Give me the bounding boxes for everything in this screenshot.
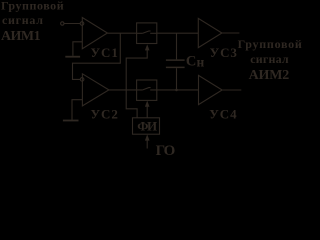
wire: FI output to key2 control xyxy=(146,106,148,117)
svg-text:н: н xyxy=(197,54,205,69)
wire: US2 output to key2 xyxy=(109,89,137,91)
capacitor Cn bottom plate xyxy=(166,66,185,68)
capacitor Cn top plate xyxy=(166,59,185,61)
op-amp US2 (triangle) xyxy=(82,74,109,106)
svg-text:ГО: ГО xyxy=(156,143,175,158)
key Kl2 switch blade xyxy=(142,88,150,90)
key Kl1 (switch box) xyxy=(137,23,157,44)
key Kl1 switch contact wires xyxy=(137,32,157,34)
junction dot: Cn to key2 output wire xyxy=(175,89,178,92)
svg-text:сигнал: сигнал xyxy=(250,52,289,66)
arrowhead: control into key1 xyxy=(145,44,150,50)
node: output label "Групповой сигнал АИМ2" xyxy=(238,37,303,83)
svg-text:УС1: УС1 xyxy=(91,45,119,60)
svg-text:сигнал: сигнал xyxy=(2,13,44,27)
svg-text:УС2: УС2 xyxy=(91,106,119,121)
svg-text:ФИ: ФИ xyxy=(137,118,157,133)
node: input label "Групповой сигнал АИМ1" xyxy=(1,0,64,44)
input terminal (open circle) xyxy=(61,22,64,25)
value label Сн xyxy=(186,53,205,69)
svg-text:Групповой: Групповой xyxy=(238,37,303,51)
node: US1 input junction circle xyxy=(80,22,84,26)
wire: US2 lower input to ground xyxy=(72,100,82,120)
ground (bar) under US2 xyxy=(63,120,79,122)
capacitor Cn top lead xyxy=(176,33,178,59)
wire: key2 output to US4 input xyxy=(157,89,199,91)
wire: US1 lower input to ground xyxy=(73,42,82,56)
svg-text:УС4: УС4 xyxy=(209,106,237,121)
key Kl2 switch contact wires xyxy=(137,89,157,91)
svg-text:С: С xyxy=(186,53,196,69)
op-amp US1 (triangle) xyxy=(82,18,107,49)
svg-text:АИМ1: АИМ1 xyxy=(1,29,41,44)
node: US2 input junction circle xyxy=(80,78,84,82)
svg-text:УС3: УС3 xyxy=(210,45,238,60)
svg-text:Групповой: Групповой xyxy=(1,0,64,12)
wire: FI output to key1 control (with jog) xyxy=(126,50,147,118)
wire: US1 output to key1 xyxy=(107,32,136,34)
capacitor Cn bottom lead xyxy=(176,68,178,90)
wire: terminal to US1 input xyxy=(64,23,80,25)
wire: US4 output xyxy=(222,89,241,91)
key Kl1 switch blade xyxy=(142,31,150,33)
block FI (pulse former) box xyxy=(133,118,160,134)
arrowhead: GO into FI xyxy=(145,134,150,140)
op-amp US4 (triangle) xyxy=(199,75,223,104)
svg-text:АИМ2: АИМ2 xyxy=(249,68,290,83)
arrowhead: control into key2 xyxy=(145,101,150,107)
wire: GO input to FI xyxy=(146,140,148,148)
wire: US3 output xyxy=(222,32,240,34)
key Kl2 (switch box) xyxy=(137,80,157,100)
ground (bar) under US1 xyxy=(65,56,80,58)
wire: key1 output to US3 input xyxy=(157,32,199,34)
op-amp US3 (triangle) xyxy=(198,18,222,47)
wire: US1 output down/left to US2 input xyxy=(73,33,121,79)
